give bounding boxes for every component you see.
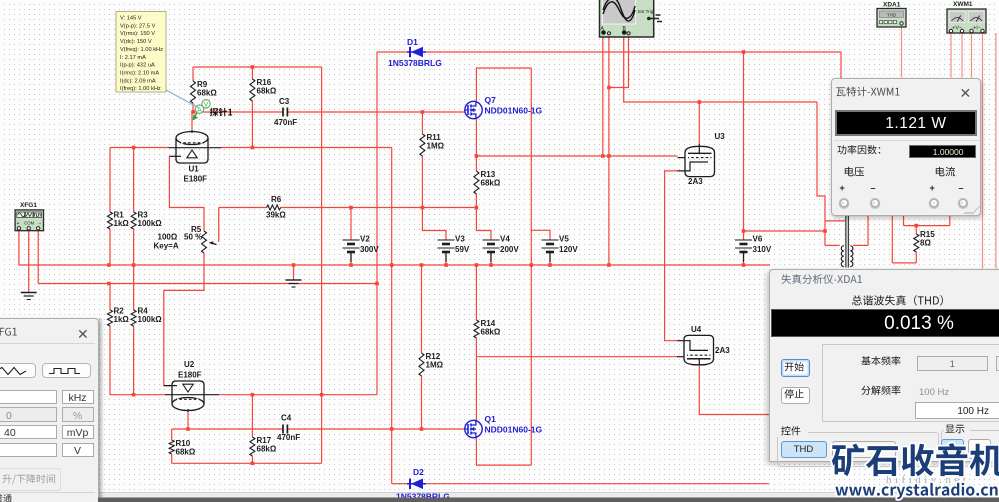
wire secondary top stub	[853, 244, 868, 246]
wire D1 bus y52	[377, 51, 407, 53]
wire R11 bottom to V3 corner	[422, 156, 446, 240]
distortion analyzer icon XDA1	[877, 9, 906, 28]
wattmeter icon XWM1	[947, 9, 986, 33]
svg-text:59V: 59V	[455, 245, 470, 254]
ground symbol on bus1	[286, 279, 302, 281]
svg-text:U3: U3	[715, 132, 726, 141]
text 总谐波失真（THD）	[852, 295, 943, 306]
wire R10 bottom lead	[171, 454, 173, 463]
wire B+ net down left of panel to primary	[817, 102, 825, 245]
wire R10 top lead	[171, 429, 173, 440]
wire R16 top lead	[251, 67, 253, 79]
svg-text:68kΩ: 68kΩ	[197, 89, 217, 98]
wire R3 bottom R4 top through bus1	[133, 229, 135, 310]
voltage source V6 310V	[735, 239, 752, 241]
resistor R13 68k	[474, 171, 479, 194]
svg-text:Q1: Q1	[485, 414, 497, 424]
wire x531.3 long vertical Q7box to Q1box	[530, 68, 532, 465]
wire R9 leads	[192, 67, 194, 81]
svg-text:I(rms): 2.10 mA: I(rms): 2.10 mA	[120, 70, 159, 76]
wire pot bottom to U2 cathode	[164, 253, 204, 386]
text 普通	[0, 494, 12, 502]
svg-text:V2: V2	[360, 235, 370, 244]
tube U2 E180F	[172, 381, 204, 404]
diode D2 1N5378BRLG	[407, 483, 426, 485]
text 开始	[785, 362, 804, 371]
svg-text:1MΩ: 1MΩ	[427, 142, 445, 151]
wire R15 bottom net	[915, 252, 917, 263]
svg-text:V: V	[204, 102, 209, 109]
wire XDA1 icon drop	[901, 26, 903, 78]
wire bottom rail y463.3	[172, 462, 322, 464]
wire FG+ drop	[18, 231, 20, 265]
svg-text:U1: U1	[189, 165, 200, 174]
svg-text:V5: V5	[559, 235, 569, 244]
wire R1 top lead	[109, 148, 111, 213]
wire R14 bottom to U4 grid bus	[475, 338, 477, 357]
svg-text:V6: V6	[753, 235, 763, 244]
svg-text:NDD01N60-1G: NDD01N60-1G	[485, 425, 543, 435]
wire scope A- down to bus1	[608, 34, 610, 265]
wire ground stub at bus1	[293, 265, 295, 280]
wire R15 top net	[903, 216, 905, 226]
svg-text:C4: C4	[281, 414, 292, 423]
svg-text:68kΩ: 68kΩ	[257, 87, 277, 96]
tube U4 2A3	[684, 335, 714, 365]
wire R11 top lead from gate bus	[421, 112, 423, 134]
tube U1 E180F	[176, 138, 208, 163]
wire R2 bottom to U2 grid bus	[109, 326, 111, 395]
text 瓦特计-XWM1	[836, 87, 899, 97]
resistor R3 100k	[131, 212, 136, 229]
svg-text:U4: U4	[691, 325, 702, 334]
capacitor C4 470nF	[282, 425, 284, 434]
wire x321.6 vertical rail67 to bottom rail463	[321, 67, 323, 463]
svg-text:68kΩ: 68kΩ	[481, 179, 501, 188]
text 停止	[785, 389, 804, 398]
svg-text:U2: U2	[184, 360, 195, 369]
text 控件	[781, 426, 800, 435]
svg-text:I(dc): 2.09 mA: I(dc): 2.09 mA	[120, 78, 156, 84]
svg-text:I(freq): 1.00 kHz: I(freq): 1.00 kHz	[120, 86, 161, 92]
wire V6 top to transformer area	[744, 230, 826, 232]
wire U2 grid bus y394.7	[110, 394, 165, 396]
svg-text:V(rms): 150 V: V(rms): 150 V	[120, 31, 155, 37]
svg-text:470nF: 470nF	[277, 433, 300, 442]
wire U1 grid left to R1/R3 tops	[110, 147, 169, 149]
svg-text:E180F: E180F	[184, 175, 208, 184]
svg-text:V(freq): 1.00 kHz: V(freq): 1.00 kHz	[120, 47, 163, 53]
text 矿石收音机	[832, 443, 999, 476]
svg-text:2A3: 2A3	[715, 346, 730, 355]
wire R6 left to pot wiper	[219, 207, 267, 209]
bottom status bars	[98, 492, 999, 499]
voltage source V2 300V	[343, 239, 360, 241]
text 电流	[936, 167, 955, 177]
svg-text:−: −	[39, 221, 42, 227]
wire U2 plate down	[187, 412, 189, 429]
wire scope B+ down right to wattmeter	[624, 34, 817, 102]
wire R13 chain to V4	[476, 208, 491, 241]
text 失真分析仪-XDA1	[781, 274, 862, 284]
text 电压	[845, 167, 864, 177]
wire R13 leads	[475, 156, 477, 171]
svg-text:68kΩ: 68kΩ	[481, 328, 501, 337]
svg-text:XWM1: XWM1	[953, 1, 973, 8]
svg-text:D2: D2	[413, 467, 424, 477]
text www.crystalr	[835, 483, 997, 499]
svg-text:100Ω: 100Ω	[158, 233, 178, 242]
resistor R9 68k	[191, 81, 196, 103]
wire U4 grid bus y356.7	[476, 356, 677, 358]
svg-text:E180F: E180F	[178, 371, 202, 380]
svg-text:COM: COM	[24, 221, 34, 226]
svg-text:XFG1: XFG1	[20, 202, 37, 209]
wire C4 bus y429 R10top-U2plate-C4-Q1gate	[172, 428, 283, 430]
svg-text:50 %: 50 %	[184, 233, 202, 242]
wire U3 cathode to U4 cathode x664.6	[665, 171, 678, 341]
resistor R2 1k	[108, 310, 113, 326]
resistor R16 68k	[250, 79, 255, 101]
wire XWM1 icon drops	[950, 33, 952, 78]
svg-text:+I−: +I−	[973, 26, 981, 32]
svg-text:200V: 200V	[500, 245, 519, 254]
potentiometer R5 100 ohm	[202, 231, 207, 253]
wire V5 branch	[531, 230, 550, 240]
resistor R14 68k	[474, 320, 479, 338]
svg-text:+: +	[17, 221, 20, 227]
wattmeter panel XWM1	[831, 78, 981, 216]
wire Q7 source down to bus156	[475, 119, 477, 156]
resistor R4 100k	[131, 310, 136, 326]
wire D1 vertical x377	[376, 52, 378, 284]
svg-text:310V: 310V	[753, 245, 772, 254]
svg-text:Q7: Q7	[485, 95, 497, 105]
wire D1 bus drop behind panel	[840, 52, 842, 79]
wire Q1 source up	[475, 357, 477, 421]
svg-text:V(p-p): 27.5 V: V(p-p): 27.5 V	[120, 23, 156, 29]
wire R17 bottom lead	[251, 456, 253, 463]
svg-text:V4: V4	[500, 235, 510, 244]
svg-text:R6: R6	[271, 195, 282, 204]
voltage source V4 200V	[483, 239, 500, 241]
wire R4 bottom to U2 grid bus	[133, 326, 135, 395]
resistor R15 8 ohm	[914, 234, 919, 252]
svg-text:2A3: 2A3	[688, 177, 703, 186]
wire D2 bus y483.7	[392, 483, 407, 485]
tube U3 2A3	[685, 146, 715, 176]
wire FG COM drop to gnd	[28, 231, 30, 292]
junction dots	[251, 65, 255, 69]
wire R2 top lead	[109, 284, 111, 311]
wire R12 bottom to C4 bus	[421, 376, 423, 429]
svg-text:1N5378BRLG: 1N5378BRLG	[388, 58, 442, 68]
text 探针1	[210, 108, 232, 117]
wire U1 cathode chain to pot top	[169, 156, 204, 231]
probe 1 annotation	[195, 107, 201, 117]
svg-text:I: 2.17 mA: I: 2.17 mA	[120, 55, 146, 61]
svg-text:THD: THD	[887, 12, 897, 17]
wire R1 bottom lead	[109, 229, 111, 265]
capacitor C3 470nF	[282, 108, 284, 117]
svg-text:100kΩ: 100kΩ	[138, 219, 163, 228]
ground symbol at FG COM	[21, 292, 37, 294]
wire R6 bus right to R13 chain	[281, 207, 477, 209]
probe tooltip callout	[166, 90, 199, 108]
transistor Q7 NDD01N60-1G	[465, 101, 482, 118]
function generator icon XFG1	[15, 210, 43, 231]
resistor R12 1M	[419, 353, 424, 376]
distortion analyzer panel XDA1	[769, 269, 999, 462]
svg-text:300V: 300V	[360, 245, 379, 254]
svg-text:39kΩ: 39kΩ	[266, 211, 286, 220]
wire R17 top lead from grid bus	[251, 395, 253, 437]
wire bus1 y265 main ground bus	[19, 264, 770, 266]
voltage source V5 120V	[542, 239, 559, 241]
svg-text:V3: V3	[455, 235, 465, 244]
wire plate bus y112 probe to C3 to Q7 gate	[193, 111, 283, 113]
wire R12 from bus1	[421, 265, 423, 353]
text 分解频率	[861, 386, 900, 395]
svg-text:C3: C3	[279, 97, 290, 106]
svg-text:100kΩ: 100kΩ	[138, 315, 163, 324]
wire Q1 drain loop bottom	[476, 438, 531, 465]
wire Q7 drain loop to x531.3	[476, 68, 531, 101]
text 函数发生器-XFG1	[0, 327, 17, 337]
wire R16 bottom lead crossing C3 bus to grid wire	[251, 101, 253, 148]
wire rail top y67 R9top-R16top-x321	[193, 66, 322, 68]
resistor R17 68k	[250, 437, 255, 456]
wire U3 plate up to B+ bus	[698, 102, 700, 144]
resistor R1 1k	[108, 212, 113, 229]
text 显示	[945, 425, 964, 434]
svg-text:470nF: 470nF	[274, 118, 297, 127]
wire R14 from bus1	[475, 265, 477, 320]
text 基本频率	[861, 356, 900, 365]
resistor R6 39k	[267, 205, 281, 210]
svg-text:Key=A: Key=A	[154, 242, 179, 251]
resistor R11 1M	[420, 134, 425, 156]
wire U1 grid right long to x391.7	[222, 147, 392, 149]
svg-text:68kΩ: 68kΩ	[257, 445, 277, 454]
svg-text:XDA1: XDA1	[883, 2, 901, 9]
text 功率因数：	[837, 145, 880, 154]
transistor Q1 NDD01N60-1G	[465, 420, 482, 437]
svg-text:1MΩ: 1MΩ	[426, 361, 444, 370]
wire x391.7 vertical grid to bus1 to D2 bus	[391, 148, 393, 484]
wire U4 plate down and right	[699, 365, 769, 415]
wire x377 bus2 corner down to U2 grid wire	[376, 284, 378, 395]
wire FG- drop to bus2	[37, 231, 39, 284]
svg-text:120V: 120V	[559, 245, 578, 254]
wire x743.5 D1 bus down to V6 top	[743, 52, 745, 231]
svg-text:V: 145 V: V: 145 V	[120, 16, 142, 22]
wire bus156 Q7 source to U3 grid	[476, 155, 677, 157]
wire R3 top lead	[133, 148, 135, 213]
svg-text:V(dc): 150 V: V(dc): 150 V	[120, 39, 152, 45]
text 升/下降时间	[2, 474, 55, 484]
wire x823.7 under panel to primary	[825, 244, 840, 246]
svg-text:Ext Trig: Ext Trig	[638, 9, 654, 14]
svg-text:68kΩ: 68kΩ	[176, 448, 196, 457]
wire primary top stub	[825, 220, 845, 222]
resistor R10 68k	[169, 440, 174, 454]
oscilloscope icon XSC1	[600, 0, 654, 37]
wire V6 leads	[743, 231, 745, 240]
svg-text:NDD01N60-1G: NDD01N60-1G	[485, 106, 543, 116]
svg-text:1kΩ: 1kΩ	[114, 219, 130, 228]
voltage source V3 59V	[438, 239, 455, 241]
wire scope A+ down	[602, 34, 604, 156]
wire scope B- down joins A-	[609, 34, 629, 88]
svg-text:8Ω: 8Ω	[920, 239, 931, 248]
wire bus2 y283.5	[38, 283, 377, 285]
wire U1 plate up	[191, 112, 193, 130]
transformer T1 output	[845, 216, 847, 268]
wire V2 top lead	[350, 208, 352, 241]
svg-text:D1: D1	[407, 37, 418, 47]
svg-text:I(p-p): 432 uA: I(p-p): 432 uA	[120, 63, 155, 69]
diode D1 1N5378BRLG	[407, 51, 426, 53]
svg-text:1kΩ: 1kΩ	[114, 315, 130, 324]
function generator panel XFG1	[0, 318, 99, 502]
